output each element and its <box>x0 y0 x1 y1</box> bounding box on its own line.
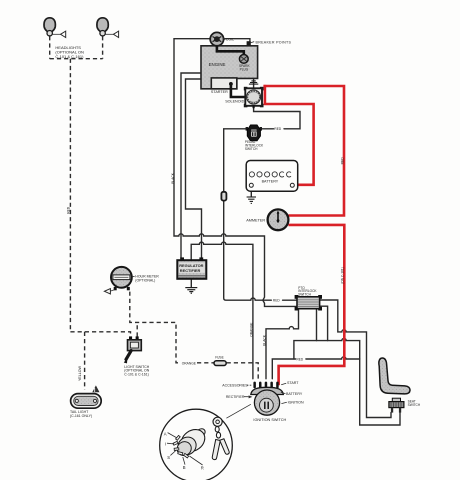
wire coil to breaker points <box>223 39 250 42</box>
wire hour meter down and across to orange fuse run <box>130 292 181 363</box>
node label COIL <box>224 38 225 40</box>
svg-text:FUSE: FUSE <box>215 355 224 359</box>
seat switch <box>389 398 404 412</box>
wire battery negative to ground <box>250 187 252 196</box>
wire light switch right terminal up <box>136 322 138 336</box>
wire horizontal y340 to seat switch right pin <box>294 338 400 425</box>
wire orange run to fuse <box>197 362 214 364</box>
svg-text:RECTIFIER: RECTIFIER <box>180 268 201 273</box>
svg-text:C-101 & C-161): C-101 & C-161) <box>124 373 149 377</box>
svg-text:PLUG: PLUG <box>240 68 249 72</box>
wire PTO upper-right to seat switch left pin <box>320 300 391 418</box>
tail light <box>71 385 102 408</box>
svg-text:BREAKER POINTS: BREAKER POINTS <box>256 41 292 45</box>
regulator rectifier <box>177 257 206 278</box>
leader lines ignition labels <box>244 383 287 403</box>
svg-text:AMMETER: AMMETER <box>246 218 265 222</box>
wire gray RED-labeled horizontal to ignition BATTERY terminal <box>272 359 295 379</box>
svg-text:SWITCH: SWITCH <box>408 403 421 407</box>
svg-text:BATTERY: BATTERY <box>286 392 303 396</box>
svg-text:START: START <box>287 381 299 385</box>
wire red solenoid to ammeter upper <box>263 86 344 216</box>
wire coil to spark plug (thick) <box>217 46 244 55</box>
wire pedal interlock left down through fuse, to RED run to PTO upper-left <box>224 129 249 192</box>
breaker points terminal <box>247 41 251 46</box>
headlight bulb 1 <box>44 18 66 38</box>
wire regulator to ground <box>190 279 192 288</box>
ground (engine / solenoid) <box>249 81 258 84</box>
wire fuse to ignition ACC area <box>227 363 259 379</box>
wire headlight 2 drop <box>102 36 104 59</box>
wire headlight 1 drop <box>49 36 51 59</box>
svg-text:COIL: COIL <box>226 37 234 41</box>
svg-text:RED: RED <box>273 299 280 303</box>
ignition switch 3D (inside magnifier) <box>173 425 209 458</box>
ground (battery) <box>247 197 256 203</box>
svg-text:BATTERY: BATTERY <box>262 180 279 184</box>
svg-text:RED: RED <box>340 157 344 165</box>
svg-text:RECTIFIER: RECTIFIER <box>226 395 245 399</box>
PTO interlock switch <box>295 295 322 311</box>
wire coil to left bus, H1 bus, down to PTO lower-left (BLACK run) <box>174 39 297 307</box>
wire headlight horizontal <box>50 58 103 60</box>
ammeter <box>268 209 289 230</box>
wire engine stub 2 jog to regulator right terminal <box>186 79 202 258</box>
engine block <box>201 46 258 89</box>
wire breaker points tick <box>251 42 255 43</box>
fuse (orange run) <box>214 361 226 366</box>
wire PTO bottom-right pin down to y340 <box>316 309 318 341</box>
svg-text:(OPTIONAL): (OPTIONAL) <box>135 278 155 282</box>
svg-text:ENGINE: ENGINE <box>209 62 226 67</box>
svg-text:SWITCH: SWITCH <box>245 147 258 151</box>
svg-text:ORANGE: ORANGE <box>182 361 197 365</box>
svg-text:RED: RED <box>274 127 281 131</box>
solenoid <box>244 87 264 108</box>
svg-text:BLACK: BLACK <box>171 172 175 184</box>
svg-text:RED: RED <box>297 357 304 361</box>
wire headlight main drop (RED) <box>69 59 71 332</box>
wire engine stub 1 to regulator left terminal <box>181 73 201 258</box>
wire engine to solenoid ground stub <box>253 78 255 88</box>
svg-text:ACCESSORIES: ACCESSORIES <box>222 384 248 388</box>
wire red ammeter lower to ignition START <box>279 225 345 385</box>
wire red solenoid to battery positive <box>265 85 314 185</box>
starter (inner box) <box>211 78 237 89</box>
wire starter to solenoid (thick) <box>231 84 245 97</box>
leader lines A I S B R <box>167 433 203 465</box>
leader magnifier to switch <box>226 404 250 418</box>
battery <box>246 161 298 192</box>
fuse inline (on pedal wire) <box>221 192 226 201</box>
hour meter <box>104 267 131 294</box>
svg-text:RED: RED <box>66 206 70 214</box>
svg-text:IGNITION: IGNITION <box>288 400 304 404</box>
spark plug <box>243 53 245 55</box>
wire headlight run to light switch left terminal <box>70 332 130 337</box>
light switch <box>124 336 142 363</box>
svg-text:(C-161 ONLY): (C-161 ONLY) <box>70 414 92 418</box>
leader hour meter label <box>132 275 135 277</box>
svg-text:B: B <box>183 465 186 470</box>
svg-text:STARTER: STARTER <box>211 90 228 94</box>
wire PTO bottom-left pin to ignition IGNITION terminal (BLACK) <box>266 309 299 379</box>
svg-text:S: S <box>167 455 170 460</box>
ignition switch (schematic) <box>251 382 283 416</box>
svg-text:IGNITION SWITCH: IGNITION SWITCH <box>253 418 286 422</box>
ground (regulator) <box>185 288 197 294</box>
svg-text:ORANGE: ORANGE <box>249 322 253 337</box>
svg-text:C-101 & C-161): C-101 & C-161) <box>55 54 84 59</box>
wire tail light drop (YELLOW) <box>84 332 86 390</box>
wire H2 bus from regulator to orange drop, down to ignition ACC terminal <box>191 242 253 379</box>
svg-text:SOLENOID: SOLENOID <box>225 99 244 103</box>
magnifier circle <box>160 409 233 480</box>
wire PTO lower-right to junction <box>320 306 328 340</box>
headlight bulb 2 <box>97 18 119 38</box>
seat <box>379 358 410 394</box>
keys (inside magnifier) <box>212 417 229 459</box>
pedal interlock switch <box>246 125 262 141</box>
svg-text:BLACK: BLACK <box>262 334 266 346</box>
svg-text:SWITCH: SWITCH <box>298 293 311 297</box>
svg-text:R: R <box>201 465 204 470</box>
wire solenoid bottom to pedal interlock right (RED label) <box>254 106 300 129</box>
svg-text:(ON C-161): (ON C-161) <box>340 267 344 283</box>
coil <box>210 32 223 45</box>
svg-text:A: A <box>164 431 167 436</box>
svg-text:YELLOW: YELLOW <box>78 365 82 381</box>
svg-text:I: I <box>165 442 166 447</box>
